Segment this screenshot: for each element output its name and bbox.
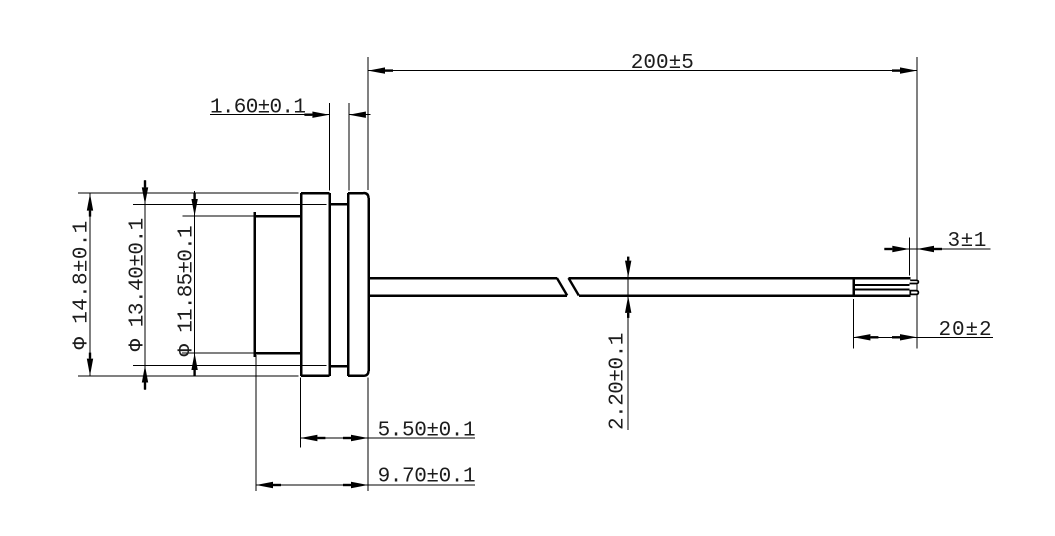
svg-text:1.60±0.1: 1.60±0.1 [210, 97, 305, 120]
svg-text:Φ 11.85±0.1: Φ 11.85±0.1 [176, 226, 199, 357]
svg-text:5.50±0.1: 5.50±0.1 [378, 419, 476, 442]
svg-text:Φ 13.40±0.1: Φ 13.40±0.1 [127, 218, 150, 351]
svg-text:200±5: 200±5 [631, 52, 694, 75]
svg-text:9.70±0.1: 9.70±0.1 [378, 466, 476, 489]
svg-text:20±2: 20±2 [939, 319, 993, 342]
svg-text:2.20±0.1: 2.20±0.1 [607, 333, 630, 430]
svg-text:Φ 14.8±0.1: Φ 14.8±0.1 [71, 220, 94, 349]
svg-text:3±1: 3±1 [948, 230, 987, 253]
